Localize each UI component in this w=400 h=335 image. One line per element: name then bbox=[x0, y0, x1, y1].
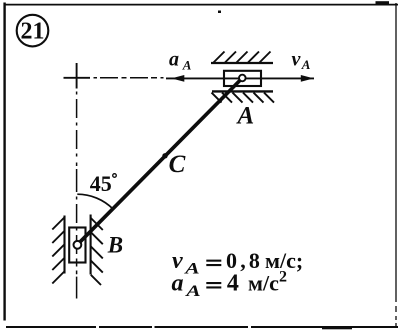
lower guide left wall hatching bbox=[52, 218, 64, 284]
horizontal center line cross bar bbox=[64, 77, 91, 79]
page frame top border bbox=[4, 4, 399, 6]
upper guide rail top line bbox=[211, 62, 273, 64]
vertical center line dash-dot bbox=[76, 92, 78, 299]
slider block B bbox=[69, 228, 85, 263]
horizontal center line dash-dot bbox=[94, 77, 164, 79]
page frame right border bbox=[395, 3, 397, 302]
scan speck top bbox=[218, 11, 221, 14]
svg-text:v: v bbox=[292, 49, 302, 71]
vertical center line cross bar bbox=[76, 63, 78, 89]
lower guide right wall bbox=[90, 215, 92, 275]
upper guide rail bottom line bbox=[212, 90, 273, 92]
svg-text:A: A bbox=[301, 57, 311, 72]
page frame left border bbox=[3, 3, 5, 321]
svg-text:4: 4 bbox=[227, 270, 239, 296]
svg-text:м/с: м/с bbox=[248, 270, 279, 295]
svg-text:B: B bbox=[107, 232, 123, 257]
svg-text:A: A bbox=[184, 260, 200, 278]
velocity arrow v_A (points right) bbox=[244, 77, 314, 79]
svg-text:0,8: 0,8 bbox=[226, 248, 263, 273]
problem number badge circle bbox=[17, 15, 49, 47]
svg-text:a: a bbox=[172, 270, 184, 296]
rod AB bbox=[77, 78, 242, 245]
upper guide rail top hatching bbox=[214, 52, 271, 63]
svg-text:2: 2 bbox=[279, 268, 287, 285]
svg-text:A: A bbox=[182, 58, 192, 73]
point C dot bbox=[162, 153, 167, 158]
svg-text:a: a bbox=[169, 49, 179, 71]
svg-text:A: A bbox=[236, 103, 255, 130]
slider block A bbox=[224, 71, 261, 86]
45 degree arc bbox=[77, 194, 113, 209]
lower guide right wall hatching bbox=[91, 218, 103, 285]
svg-text:21: 21 bbox=[21, 19, 45, 45]
svg-text:A: A bbox=[185, 283, 201, 301]
page frame top-right bump bbox=[376, 1, 390, 4]
svg-text:45: 45 bbox=[90, 171, 112, 196]
page frame right border dotted tail bbox=[395, 306, 397, 328]
upper guide rail bottom hatching bbox=[212, 93, 275, 103]
pin B bbox=[74, 241, 82, 249]
page frame bottom border bbox=[6, 326, 398, 328]
pin A bbox=[239, 75, 246, 82]
svg-text:C: C bbox=[169, 151, 186, 178]
acceleration arrow a_A (points left) bbox=[166, 77, 244, 79]
page frame bottom border thick segment bbox=[322, 326, 352, 329]
lower guide left wall bbox=[63, 216, 65, 274]
